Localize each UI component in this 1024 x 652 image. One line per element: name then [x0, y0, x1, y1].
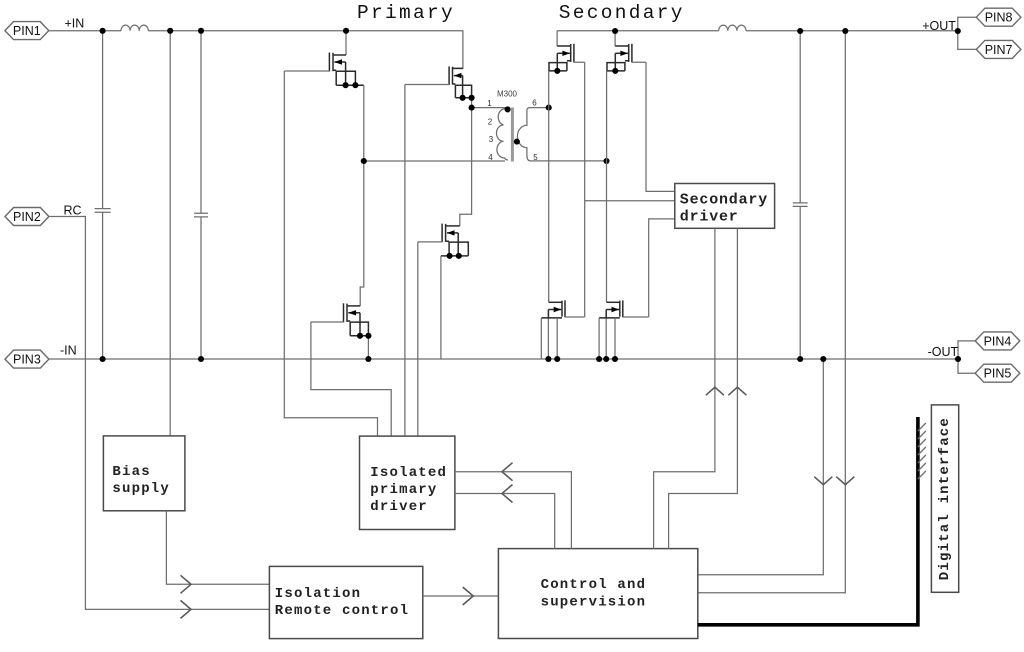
transistor Q6 drain: [614, 31, 616, 46]
svg-text:supervision: supervision: [541, 595, 647, 611]
PIN2 connector: [5, 208, 49, 226]
wire control to primary driver upper: [455, 472, 572, 549]
wire Q7 gate stub: [565, 316, 585, 318]
transistor Q3 gate bar: [343, 303, 345, 322]
transistor Q1 channel bar: [332, 53, 334, 71]
wire Q2 source to pin1 node: [471, 98, 473, 108]
svg-text:6: 6: [532, 99, 537, 108]
svg-text:driver: driver: [370, 499, 428, 515]
svg-text:Digital interface: Digital interface: [937, 417, 953, 580]
transistor Q8 channel bar: [619, 301, 621, 317]
wire Q1 source to node A: [363, 85, 365, 161]
box Isolated primary driver: [360, 436, 455, 529]
svg-text:5: 5: [533, 153, 538, 162]
wire -OUT sense line: [698, 359, 824, 575]
capacitor C2 bottom lead: [200, 217, 202, 359]
node Q2 source dots: [460, 95, 475, 101]
transistor Q8 drain: [606, 161, 608, 302]
inductor L2: [719, 25, 746, 31]
svg-text:M300: M300: [497, 90, 518, 99]
transistor Q3 body arrow: [348, 310, 360, 336]
svg-text:+OUT: +OUT: [922, 19, 956, 33]
transistor Q1 drain: [345, 31, 347, 55]
transistor Q6 body arrow: [615, 51, 628, 71]
wire pin1 node to transformer: [472, 107, 507, 109]
capacitor C2 top lead: [200, 31, 202, 214]
wire Q3 source to -IN rail: [367, 336, 369, 359]
node top rail dots: [100, 28, 961, 34]
box Digital interface: [931, 405, 958, 592]
wire Q6 source to pin5 node: [606, 71, 608, 161]
wire PIN4 PIN5 branch: [958, 341, 975, 373]
transistor Q4 body arrow: [447, 230, 458, 256]
wire -IN -OUT rail: [49, 358, 958, 360]
svg-text:PIN2: PIN2: [13, 210, 41, 224]
inductor L1: [121, 25, 148, 31]
transistor Q2 drain: [453, 67, 463, 69]
wire Q4 source to -IN rail: [440, 256, 442, 359]
svg-text:Remote control: Remote control: [275, 603, 409, 619]
transistor Q5 gate bar: [573, 44, 575, 63]
capacitor C2: [194, 213, 208, 217]
transistor Q5 source loop: [549, 61, 571, 71]
transistor Q2 gate bar: [448, 66, 450, 85]
transistor Q6 gate bar: [631, 44, 633, 63]
arrow into isolation box lower: [181, 600, 192, 618]
transistor Q2 channel bar: [452, 67, 454, 85]
svg-text:Isolated: Isolated: [370, 465, 447, 481]
wire +IN rail left: [49, 30, 121, 32]
wire secondary +OUT rail: [557, 30, 958, 32]
svg-text:1: 1: [487, 99, 492, 108]
wire control to secondary driver left: [654, 228, 715, 548]
svg-text:RC: RC: [64, 204, 82, 218]
node Q3 source dots: [357, 333, 372, 339]
svg-text:3: 3: [489, 135, 494, 144]
arrow up secondary driver left: [706, 387, 724, 395]
svg-text:PIN8: PIN8: [985, 11, 1013, 25]
wire Q5 source to pin6 node: [548, 71, 550, 108]
svg-text:Secondary: Secondary: [559, 2, 685, 24]
transistor Q7 drain: [548, 108, 550, 303]
capacitor C3 top lead: [799, 31, 801, 203]
node Q7 source dots: [545, 356, 560, 362]
wire control to secondary driver right: [669, 228, 738, 548]
node Q8 source dots: [596, 356, 618, 362]
svg-text:Primary: Primary: [357, 2, 455, 24]
wire control to primary driver lower: [455, 494, 555, 549]
digital interface bus thick line: [698, 417, 918, 625]
transformer T1 primary winding: [496, 109, 508, 160]
PIN7 connector: [976, 40, 1021, 58]
transistor Q8 gate bar: [622, 300, 624, 317]
PIN3 connector: [5, 350, 49, 368]
arrow +OUT sense down: [836, 477, 854, 485]
wire pin4 node to transformer: [364, 160, 505, 162]
svg-text:primary: primary: [370, 482, 437, 498]
arrow into control box: [463, 587, 474, 605]
wire bias supply to isolation box: [166, 511, 269, 585]
transformer T1 secondary winding: [517, 108, 606, 161]
arrow into primary driver lower: [502, 485, 513, 503]
capacitor C1: [95, 209, 111, 213]
transistor Q8 source loop: [599, 317, 620, 319]
svg-text:PIN5: PIN5: [984, 367, 1012, 381]
svg-text:2: 2: [488, 117, 493, 126]
wire Q2 gate to driver: [405, 85, 449, 437]
wire isolation to control: [423, 595, 499, 597]
svg-text:PIN7: PIN7: [985, 43, 1013, 57]
transistor Q7 channel bar: [561, 301, 563, 317]
box Secondary driver: [675, 184, 775, 229]
svg-text:PIN4: PIN4: [984, 334, 1012, 348]
transistor Q7 gate bar: [564, 300, 566, 317]
transistor Q4 drain: [460, 108, 472, 226]
wire bias supply feed: [169, 31, 171, 436]
node Q5 source dot: [554, 68, 560, 74]
transistor Q7 source loop: [541, 317, 562, 319]
wire RC to isolation box: [49, 217, 270, 610]
transistor Q3 drain: [360, 161, 364, 306]
svg-text:driver: driver: [680, 209, 739, 226]
arrow into isolation box upper: [181, 575, 192, 593]
transistor Q3 source loop: [347, 321, 368, 336]
svg-text:4: 4: [488, 153, 493, 162]
wire PIN8 PIN7 branch: [958, 17, 977, 49]
transistor Q5 body arrow: [557, 51, 570, 71]
capacitor C3 bottom lead: [799, 206, 801, 359]
wire Q8 gate to secondary driver: [623, 219, 675, 317]
transistor Q5 channel bar: [570, 44, 572, 62]
node Q1 source dots: [343, 82, 359, 88]
transistor Q7 body arrow: [548, 307, 561, 359]
transistor Q2 source loop: [453, 84, 472, 98]
wire +IN rail right: [148, 31, 463, 69]
arrow into primary driver upper: [502, 463, 513, 481]
svg-text:PIN3: PIN3: [13, 353, 41, 367]
node Q6 source dot: [612, 68, 618, 74]
box Isolation Remote control: [269, 566, 422, 638]
svg-text:-OUT: -OUT: [928, 345, 959, 359]
capacitor C3: [793, 203, 808, 207]
node bottom rail dots: [100, 356, 962, 362]
arrow -OUT sense down: [814, 477, 832, 485]
box Control and supervision: [498, 549, 697, 639]
digital interface hatching: [918, 423, 926, 479]
node transformer dots: [361, 105, 610, 165]
transistor Q1 gate bar: [328, 53, 330, 72]
wire Q1 gate to driver: [284, 71, 377, 436]
wire Q3 gate to driver: [311, 322, 391, 436]
svg-text:Secondary: Secondary: [680, 192, 768, 209]
wire +OUT sense line: [698, 31, 846, 593]
node Q4 source dots: [447, 253, 462, 259]
PIN4 connector: [975, 332, 1020, 350]
transistor Q4 gate bar: [441, 224, 443, 243]
PIN5 connector: [975, 364, 1020, 382]
svg-text:Bias: Bias: [112, 464, 150, 480]
transistor Q6 channel bar: [628, 44, 630, 62]
wire Q5 Q7 gate to secondary driver: [574, 62, 675, 317]
svg-text:PIN1: PIN1: [13, 24, 41, 38]
transformer T1 core: [511, 108, 514, 162]
PIN8 connector: [976, 8, 1021, 26]
svg-text:Control and: Control and: [541, 577, 647, 593]
wire Q4 gate to driver: [418, 242, 442, 436]
PIN1 connector: [5, 22, 49, 40]
transistor Q1 body arrow: [334, 59, 345, 85]
capacitor C1 top lead: [102, 31, 104, 209]
svg-text:supply: supply: [112, 481, 170, 497]
transistor Q6 source loop: [607, 61, 629, 71]
capacitor C1 bottom lead: [102, 212, 104, 359]
wire Q6 gate to secondary driver: [632, 62, 675, 191]
transistor Q2 body arrow: [454, 73, 463, 98]
transistor Q1 source loop: [333, 70, 364, 85]
transistor Q5 drain: [556, 31, 558, 46]
transistor Q8 body arrow: [606, 307, 619, 359]
arrow up secondary driver right: [728, 387, 746, 395]
svg-text:Isolation: Isolation: [275, 586, 361, 602]
svg-text:-IN: -IN: [60, 343, 77, 357]
svg-text:+IN: +IN: [65, 17, 85, 31]
box Bias supply: [103, 436, 184, 511]
transistor Q4 channel bar: [445, 224, 447, 242]
transistor Q4 source loop: [441, 241, 468, 256]
transistor Q3 channel bar: [346, 304, 348, 322]
